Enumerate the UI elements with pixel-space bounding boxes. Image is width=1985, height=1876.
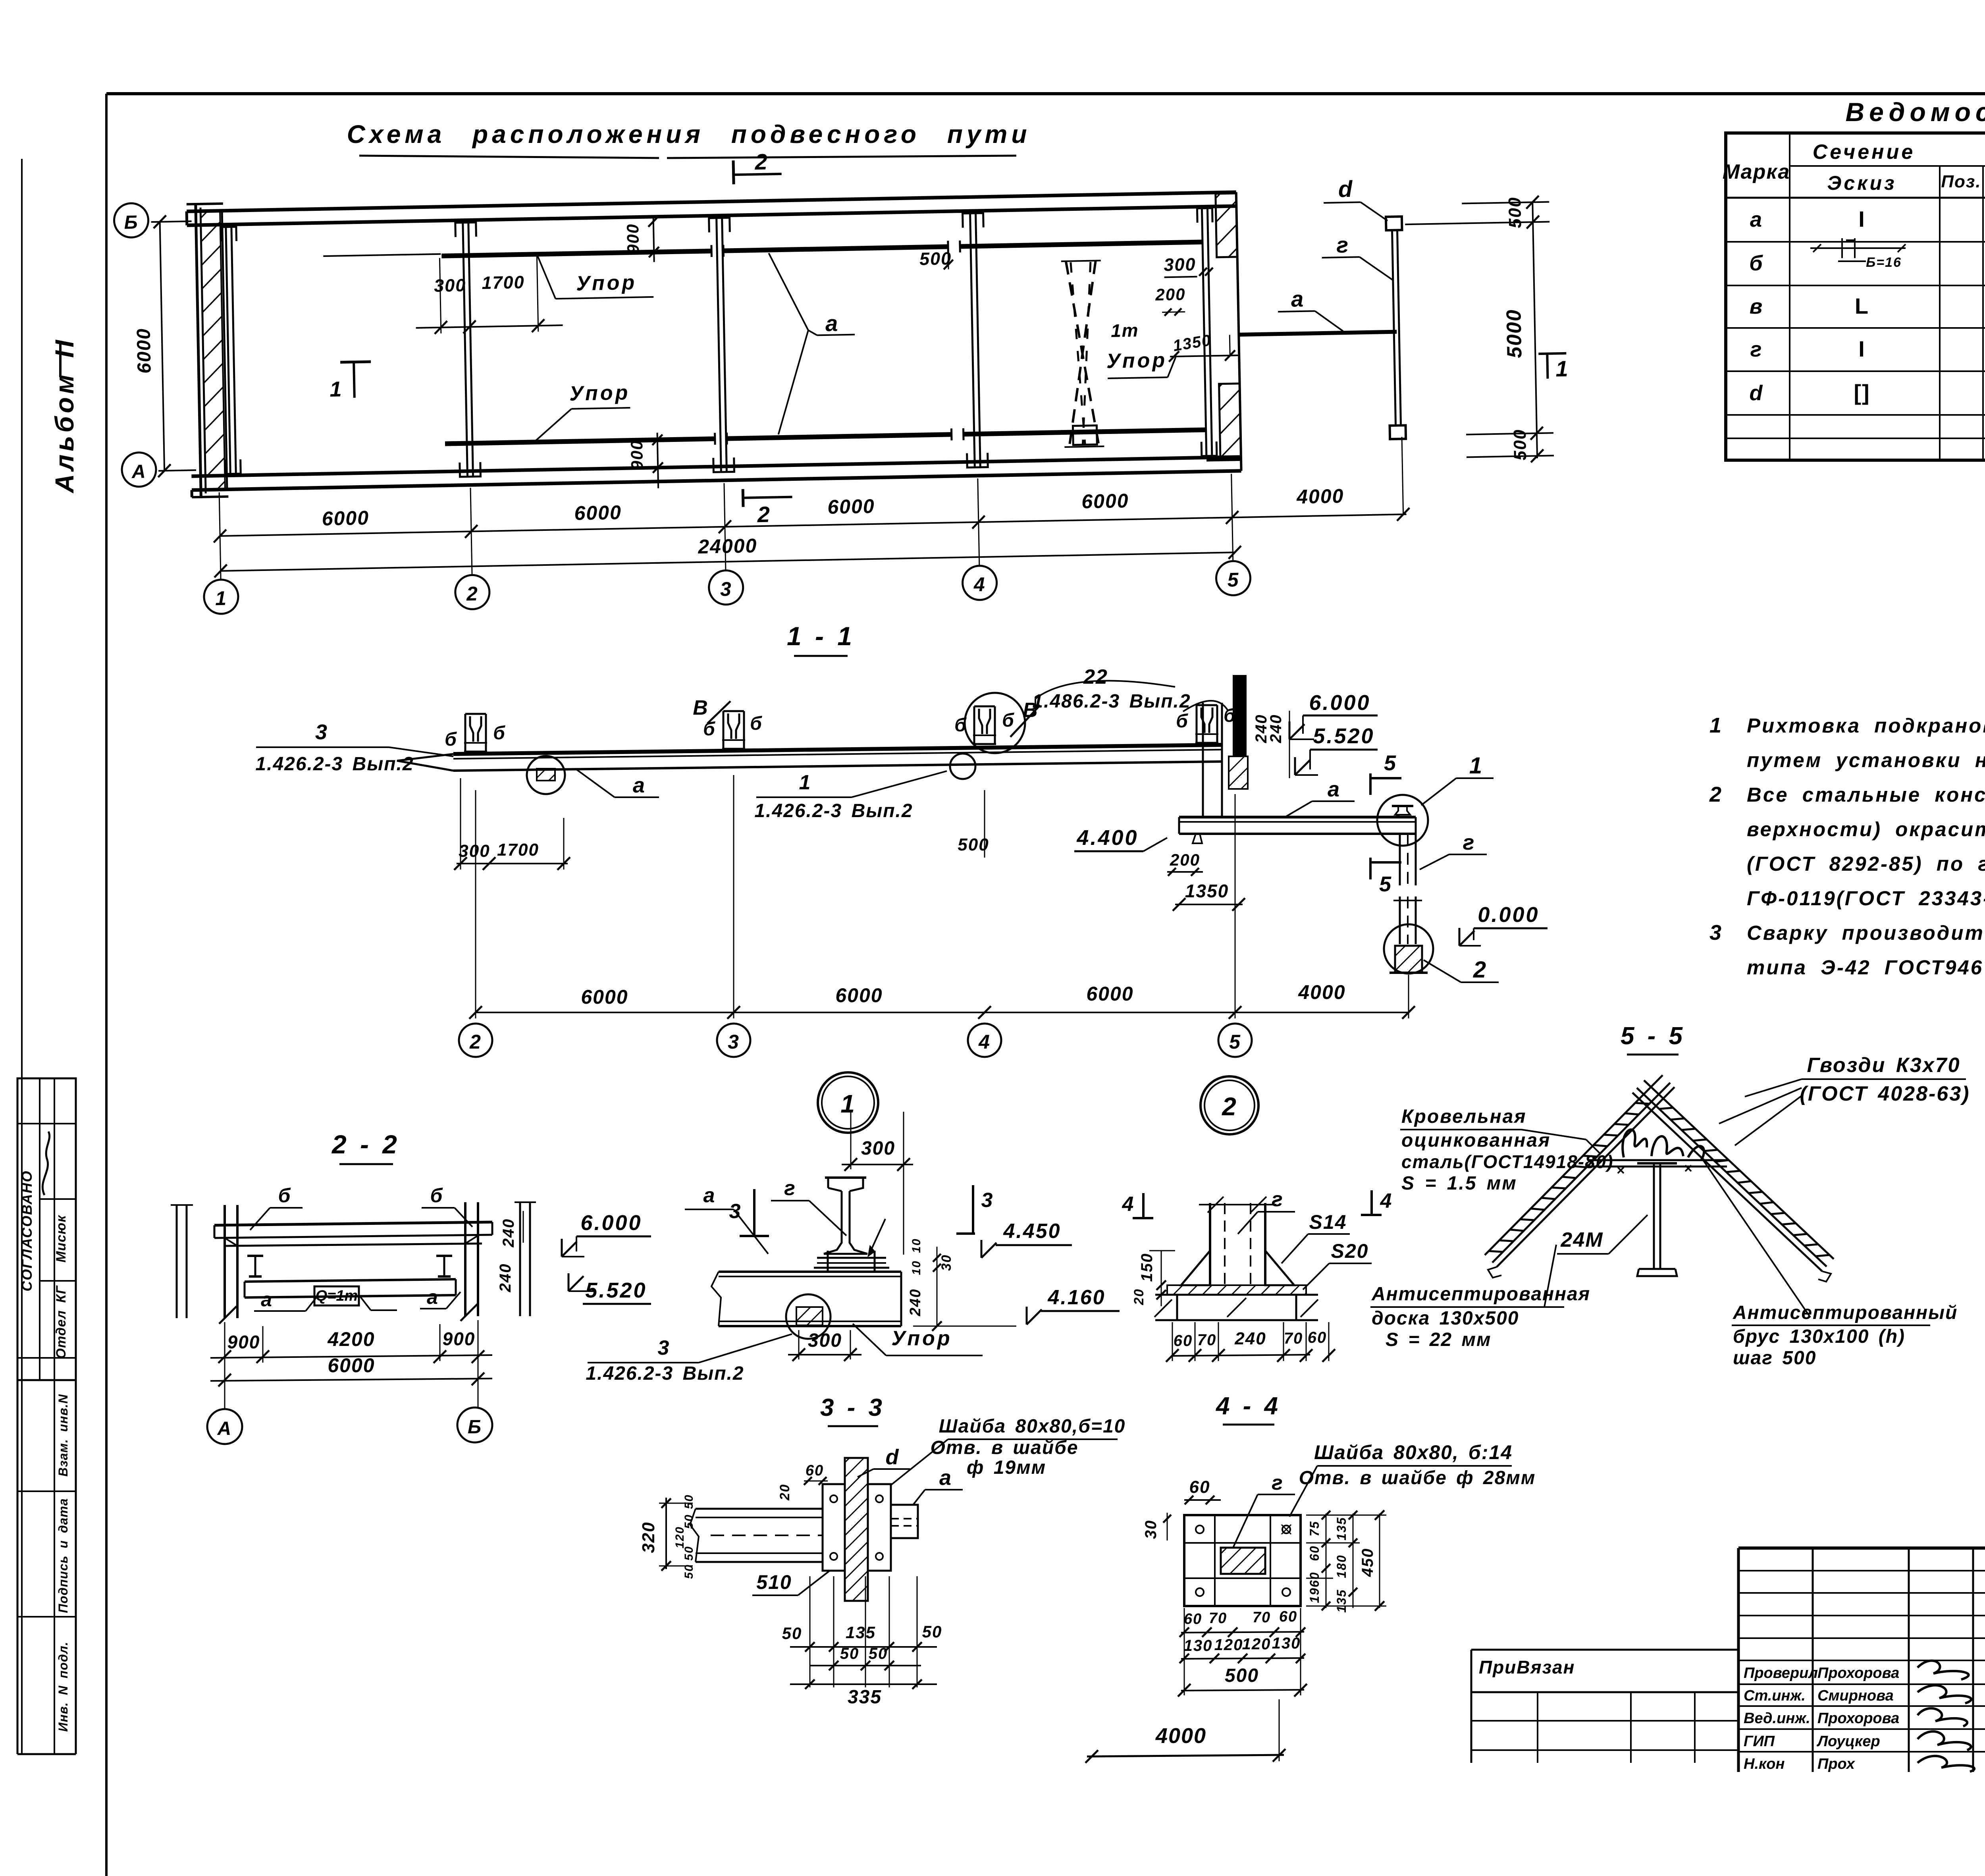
plan grid circles 1-5 bbox=[204, 579, 239, 614]
svg-text:5.520: 5.520 bbox=[1313, 724, 1374, 748]
plan lower track bbox=[445, 439, 715, 443]
section 1-1 grid circles bbox=[459, 1024, 492, 1057]
plan left rail b bbox=[226, 228, 230, 474]
svg-text:1: 1 bbox=[330, 377, 343, 401]
detail 1 dim 300 top bbox=[842, 1164, 913, 1165]
svg-text:ГИП: ГИП bbox=[1744, 1733, 1775, 1750]
svg-text:30: 30 bbox=[1142, 1520, 1160, 1539]
svg-text:Антисептированный: Антисептированный bbox=[1733, 1302, 1958, 1323]
detail 2 base plate bbox=[1167, 1285, 1306, 1295]
plan dim 300 1700 bbox=[439, 258, 441, 334]
svg-text:1700: 1700 bbox=[497, 840, 539, 860]
svg-text:б: б bbox=[430, 1184, 443, 1207]
plan top wall bbox=[187, 192, 1236, 211]
svg-text:5: 5 bbox=[1229, 1031, 1241, 1053]
svg-text:6000: 6000 bbox=[574, 501, 622, 524]
detail 1 dim 300 bottom bbox=[798, 1330, 800, 1359]
section mark 5 top bbox=[1369, 773, 1372, 795]
svg-text:10 10: 10 10 bbox=[910, 1238, 923, 1275]
svg-text:а: а bbox=[1328, 777, 1340, 801]
svg-text:2: 2 bbox=[1222, 1092, 1237, 1121]
svg-text:Кровельная: Кровельная bbox=[1401, 1106, 1527, 1127]
svg-text:240: 240 bbox=[1267, 714, 1285, 744]
svg-text:Подпись и дата: Подпись и дата bbox=[56, 1498, 70, 1613]
svg-text:1.426.2-3 Вып.2: 1.426.2-3 Вып.2 bbox=[586, 1363, 744, 1384]
svg-text:S = 1.5 мм: S = 1.5 мм bbox=[1401, 1173, 1517, 1194]
svg-text:5000: 5000 bbox=[1502, 309, 1526, 359]
svg-text:Смирнова: Смирнова bbox=[1817, 1687, 1894, 1704]
svg-text:Q=1т: Q=1т bbox=[316, 1288, 358, 1304]
svg-text:200: 200 bbox=[1155, 285, 1186, 304]
svg-text:70: 70 bbox=[1197, 1331, 1217, 1349]
svg-text:L: L bbox=[1855, 293, 1869, 318]
svg-text:б: б bbox=[750, 713, 763, 734]
4-4 right dims bbox=[1326, 1514, 1327, 1608]
svg-text:б: б bbox=[1176, 711, 1189, 732]
svg-text:Шайба 80х80, б:14: Шайба 80х80, б:14 bbox=[1314, 1441, 1513, 1463]
5-5 top wood scribbles bbox=[1623, 1130, 1647, 1157]
svg-text:4.400: 4.400 bbox=[1076, 826, 1138, 850]
svg-text:4: 4 bbox=[973, 573, 986, 596]
svg-text:60: 60 bbox=[1189, 1477, 1210, 1497]
5-5 doska band bbox=[1588, 1159, 1727, 1161]
svg-text:24000: 24000 bbox=[698, 534, 757, 558]
3-3 right stub a bbox=[891, 1505, 918, 1538]
svg-text:2: 2 bbox=[1473, 957, 1487, 983]
svg-text:[]: [] bbox=[1854, 380, 1870, 405]
plan bottom dim rows bbox=[220, 514, 1406, 536]
svg-text:240: 240 bbox=[500, 1219, 517, 1248]
svg-text:1: 1 bbox=[840, 1089, 856, 1118]
sheet frame bbox=[106, 92, 1985, 95]
svg-text:a: a bbox=[1750, 208, 1763, 231]
plan right wall hatched blocks bbox=[1216, 193, 1237, 257]
detail 1 second pointer bbox=[869, 1219, 885, 1255]
svg-text:3: 3 bbox=[728, 1031, 740, 1053]
2-2 left column bbox=[224, 1205, 226, 1318]
svg-text:180: 180 bbox=[1334, 1554, 1349, 1578]
plan upper track bbox=[441, 251, 711, 256]
svg-text:Поз.: Поз. bbox=[1941, 172, 1981, 191]
svg-text:900: 900 bbox=[623, 223, 642, 254]
plan section mark 1 left bbox=[354, 362, 355, 398]
svg-text:130: 130 bbox=[1272, 1635, 1301, 1652]
svg-text:6000: 6000 bbox=[1081, 490, 1129, 513]
svg-text:50: 50 bbox=[840, 1645, 860, 1662]
svg-text:300: 300 bbox=[861, 1138, 895, 1159]
svg-text:Взам. инв.N: Взам. инв.N bbox=[56, 1394, 70, 1477]
svg-text:Вед.инж.: Вед.инж. bbox=[1744, 1710, 1810, 1727]
svg-text:б: б bbox=[1749, 251, 1763, 275]
detail 1 rail bbox=[824, 1253, 867, 1255]
svg-text:г: г bbox=[1463, 831, 1475, 854]
4-4 bottom dims bbox=[1181, 1632, 1304, 1633]
svg-text:Упор: Упор bbox=[1106, 349, 1167, 373]
svg-text:г: г bbox=[1750, 337, 1763, 361]
svg-text:А: А bbox=[131, 461, 146, 482]
svg-text:б: б bbox=[1002, 710, 1015, 731]
detail circle 2 big bbox=[1201, 1076, 1258, 1134]
svg-text:6000: 6000 bbox=[133, 328, 155, 374]
svg-text:2: 2 bbox=[757, 502, 771, 527]
svg-text:1350: 1350 bbox=[1185, 881, 1229, 901]
svg-text:4000: 4000 bbox=[1155, 1724, 1206, 1748]
big circle detail V bbox=[965, 693, 1025, 753]
plan left vertical dim 6000 bbox=[160, 222, 164, 471]
2-2 vertical wavy column lines left bbox=[176, 1205, 178, 1318]
svg-text:510: 510 bbox=[756, 1571, 792, 1593]
3-3 arm beam bbox=[696, 1508, 823, 1510]
plan right rail bbox=[1202, 209, 1206, 456]
plan column grid x=2468 bbox=[970, 212, 975, 467]
signatures squiggles bbox=[1918, 1661, 1969, 1679]
plan section mark 2 bottom bbox=[742, 489, 745, 507]
small hook under bracket left bbox=[1193, 834, 1202, 843]
svg-text:3: 3 bbox=[720, 578, 732, 600]
svg-text:Марка: Марка bbox=[1723, 160, 1790, 183]
svg-text:S20: S20 bbox=[1331, 1240, 1369, 1262]
section 1-1 bracket beam bbox=[1179, 816, 1416, 819]
svg-text:Упор: Упор bbox=[569, 381, 630, 405]
5-5 roof feet bbox=[1488, 1267, 1501, 1278]
svg-text:135: 135 bbox=[1334, 1517, 1349, 1540]
svg-text:Упор: Упор bbox=[891, 1327, 952, 1350]
left stamp lower boxes bbox=[17, 1380, 19, 1754]
svg-text:Проверил: Проверил bbox=[1744, 1665, 1818, 1681]
2-2 cross beam a bbox=[245, 1279, 456, 1282]
svg-text:1960: 1960 bbox=[1307, 1571, 1322, 1603]
small circle splice mid bbox=[950, 754, 975, 779]
svg-text:4: 4 bbox=[978, 1031, 991, 1053]
svg-text:240: 240 bbox=[1234, 1329, 1266, 1348]
svg-text:d: d bbox=[1750, 381, 1763, 405]
svg-text:шаг 500: шаг 500 bbox=[1733, 1348, 1816, 1369]
svg-text:135: 135 bbox=[846, 1623, 876, 1642]
svg-text:50: 50 bbox=[682, 1494, 696, 1509]
svg-text:150: 150 bbox=[1138, 1253, 1156, 1282]
detail 2 bottom dims bbox=[1171, 1355, 1310, 1356]
svg-text:6.000: 6.000 bbox=[1309, 691, 1370, 715]
svg-text:300: 300 bbox=[808, 1330, 842, 1351]
svg-text:900: 900 bbox=[227, 1332, 260, 1352]
svg-text:500: 500 bbox=[1510, 429, 1530, 461]
svg-text:г: г bbox=[1272, 1471, 1284, 1494]
svg-text:а: а bbox=[703, 1184, 716, 1207]
plan dim 900 bottom bbox=[657, 433, 659, 488]
plan left wall hatched bbox=[196, 204, 201, 497]
svg-text:1: 1 bbox=[1469, 753, 1483, 779]
svg-text:СОГЛАСОВАНО: СОГЛАСОВАНО bbox=[19, 1170, 35, 1291]
detail 1 stop circle bbox=[786, 1294, 831, 1339]
svg-text:60: 60 bbox=[1307, 1545, 1322, 1561]
svg-text:3: 3 bbox=[729, 1200, 742, 1223]
svg-text:70: 70 bbox=[1209, 1610, 1227, 1627]
svg-text:3: 3 bbox=[315, 720, 328, 744]
svg-text:Б: Б bbox=[124, 212, 139, 233]
svg-text:500: 500 bbox=[1505, 197, 1525, 228]
svg-text:1: 1 bbox=[215, 587, 227, 610]
svg-text:4000: 4000 bbox=[1296, 485, 1344, 508]
svg-text:а: а bbox=[1291, 286, 1304, 312]
svg-text:Сечение: Сечение bbox=[1813, 141, 1916, 164]
plan X brace dashed band bbox=[1066, 260, 1099, 447]
plan section mark 1 right bbox=[1538, 353, 1566, 354]
svg-text:Шайба 80х80,б=10: Шайба 80х80,б=10 bbox=[939, 1416, 1126, 1437]
svg-text:20: 20 bbox=[1131, 1288, 1147, 1305]
svg-text:Отдел КГ: Отдел КГ bbox=[54, 1285, 69, 1359]
svg-text:4 - 4: 4 - 4 bbox=[1215, 1392, 1280, 1420]
section 1-1 right wall column bbox=[1233, 675, 1247, 756]
svg-text:900: 900 bbox=[443, 1328, 476, 1349]
privyazan table bbox=[1471, 1649, 1738, 1651]
svg-text:4000: 4000 bbox=[1298, 981, 1345, 1003]
4-4 plate bbox=[1184, 1515, 1301, 1606]
svg-text:А: А bbox=[217, 1418, 232, 1439]
svg-text:а: а bbox=[427, 1286, 439, 1308]
svg-text:4: 4 bbox=[1380, 1190, 1393, 1213]
svg-text:6000: 6000 bbox=[581, 986, 628, 1008]
svg-text:1.426.2-3 Вып.2: 1.426.2-3 Вып.2 bbox=[255, 754, 414, 775]
svg-text:4200: 4200 bbox=[327, 1328, 375, 1350]
svg-text:1.426.2-3 Вып.2: 1.426.2-3 Вып.2 bbox=[754, 800, 913, 821]
svg-text:I: I bbox=[1858, 206, 1866, 231]
svg-text:1 - 1: 1 - 1 bbox=[787, 621, 854, 651]
svg-text:5 - 5: 5 - 5 bbox=[1621, 1022, 1684, 1050]
svg-text:3: 3 bbox=[658, 1336, 670, 1359]
svg-text:200: 200 bbox=[1170, 850, 1200, 869]
detail 2 section marks 4 bbox=[1142, 1193, 1145, 1218]
svg-text:120: 120 bbox=[673, 1526, 686, 1548]
svg-text:5: 5 bbox=[1379, 872, 1392, 896]
svg-text:Прохорова: Прохорова bbox=[1817, 1665, 1899, 1681]
plan thin track extension left bbox=[323, 254, 441, 256]
svg-text:70: 70 bbox=[1284, 1330, 1303, 1347]
svg-text:60: 60 bbox=[806, 1462, 824, 1479]
svg-text:1.486.2-3 Вып.2: 1.486.2-3 Вып.2 bbox=[1032, 691, 1191, 712]
svg-text:1700: 1700 bbox=[482, 272, 525, 293]
svg-text:50: 50 bbox=[922, 1622, 942, 1641]
detail 1 section marks 3 bbox=[753, 1189, 755, 1235]
svg-text:типа Э-42 ГОСТ9467-75, hшва=6м: типа Э-42 ГОСТ9467-75, hшва=6мм. Тип шва… bbox=[1747, 956, 1985, 979]
2-2 grid circles bbox=[207, 1409, 242, 1444]
svg-text:335: 335 bbox=[848, 1687, 882, 1708]
svg-text:0.000: 0.000 bbox=[1478, 903, 1539, 927]
svg-text:d: d bbox=[1338, 176, 1353, 202]
svg-text:Антисептированная: Антисептированная bbox=[1371, 1284, 1590, 1305]
svg-text:4.160: 4.160 bbox=[1047, 1286, 1105, 1309]
svg-text:d: d bbox=[886, 1445, 900, 1469]
3-3 bottom dims bbox=[809, 1576, 811, 1687]
svg-text:60: 60 bbox=[1174, 1332, 1193, 1350]
svg-text:доска 130х500: доска 130х500 bbox=[1372, 1308, 1519, 1329]
right hanger rail vertical bbox=[1202, 703, 1204, 817]
plan bottom wall bbox=[191, 457, 1241, 476]
svg-text:22: 22 bbox=[1083, 665, 1108, 688]
5-5 roof slopes bbox=[1497, 1087, 1675, 1267]
svg-text:путем установки набора проклад: путем установки набора прокладок. bbox=[1747, 749, 1985, 771]
section 1-1 hangers bbox=[464, 714, 466, 752]
column g below bracket bbox=[1399, 834, 1401, 885]
svg-text:оцинкованная: оцинкованная bbox=[1401, 1130, 1551, 1151]
svg-text:50: 50 bbox=[869, 1645, 888, 1662]
svg-text:2: 2 bbox=[469, 1031, 482, 1053]
svg-text:50: 50 bbox=[782, 1624, 802, 1643]
plan dim 900 top bbox=[653, 217, 654, 262]
section 1-1 main beam bbox=[453, 745, 1223, 754]
svg-text:г: г bbox=[784, 1177, 796, 1200]
2-2 Q=1t box bbox=[314, 1286, 359, 1305]
svg-text:60: 60 bbox=[1184, 1611, 1202, 1627]
svg-text:ГФ-0119(ГОСТ 23343-78).: ГФ-0119(ГОСТ 23343-78). bbox=[1747, 887, 1985, 910]
svg-text:130: 130 bbox=[1184, 1637, 1213, 1654]
svg-text:Сварку производить по ГОСТ 526: Сварку производить по ГОСТ 5264-80 элект… bbox=[1747, 922, 1985, 944]
svg-text:3 - 3: 3 - 3 bbox=[820, 1394, 884, 1421]
svg-text:Гвозди К3х70: Гвозди К3х70 bbox=[1807, 1054, 1960, 1077]
svg-text:Все стальные конструкциии (кро: Все стальные конструкциии (кроме ездовой… bbox=[1747, 783, 1985, 806]
plan right vertical dim 500/5000/500 bbox=[1532, 202, 1537, 458]
svg-text:Мисюк: Мисюк bbox=[54, 1215, 69, 1262]
svg-text:6000: 6000 bbox=[322, 507, 369, 530]
svg-text:2: 2 bbox=[754, 149, 768, 175]
svg-text:900: 900 bbox=[627, 440, 646, 470]
svg-text:1: 1 bbox=[1709, 713, 1722, 737]
detail 2 column bbox=[1209, 1203, 1211, 1285]
svg-text:Альбом II: Альбом II bbox=[50, 337, 79, 494]
svg-text:Прохорова: Прохорова bbox=[1817, 1710, 1899, 1727]
plan section mark 2 top bbox=[733, 160, 734, 184]
svg-text:1: 1 bbox=[799, 771, 811, 794]
svg-text:70: 70 bbox=[1253, 1609, 1271, 1626]
svg-text:Б=16: Б=16 bbox=[1866, 255, 1902, 270]
plan view group bbox=[113, 135, 1573, 616]
svg-text:6000: 6000 bbox=[827, 495, 875, 518]
section mark 5 bottom bbox=[1369, 858, 1372, 879]
svg-text:Отв. в шайбе: Отв. в шайбе bbox=[930, 1437, 1078, 1458]
svg-text:б: б bbox=[445, 729, 457, 750]
svg-text:3: 3 bbox=[1709, 921, 1722, 945]
column g lower part bbox=[1399, 897, 1401, 944]
section 1-1 splice circle left bbox=[527, 756, 565, 794]
plan trolley box bbox=[1073, 426, 1097, 445]
svg-text:а: а bbox=[825, 310, 838, 336]
5-5 I beam bbox=[1637, 1162, 1677, 1165]
svg-text:6000: 6000 bbox=[328, 1354, 375, 1377]
svg-text:1т: 1т bbox=[1111, 320, 1139, 341]
svg-text:75: 75 bbox=[1307, 1521, 1322, 1537]
2-2 bottom dims bbox=[210, 1355, 492, 1358]
svg-text:S14: S14 bbox=[1309, 1211, 1347, 1233]
svg-text:60: 60 bbox=[1279, 1608, 1297, 1625]
foundation circle 2 bbox=[1384, 924, 1433, 974]
svg-text:450: 450 bbox=[1359, 1548, 1376, 1577]
2-2 rails I bbox=[247, 1255, 263, 1257]
detail 2 gussets bbox=[1181, 1251, 1210, 1285]
svg-text:Эскиз: Эскиз bbox=[1827, 172, 1896, 194]
svg-text:20: 20 bbox=[777, 1484, 792, 1501]
svg-text:В: В bbox=[693, 696, 709, 719]
svg-text:Прох: Прох bbox=[1817, 1756, 1856, 1772]
svg-text:6000: 6000 bbox=[1086, 983, 1133, 1005]
svg-text:5: 5 bbox=[1227, 569, 1239, 591]
svg-text:300: 300 bbox=[434, 275, 466, 296]
svg-text:240: 240 bbox=[497, 1263, 514, 1293]
svg-text:Ведомость элементов: Ведомость элементов bbox=[1845, 97, 1985, 127]
svg-text:Отв. в шайбе ф 28мм: Отв. в шайбе ф 28мм bbox=[1299, 1467, 1536, 1488]
svg-text:верхности) окрасить двумя слоя: верхности) окрасить двумя слоями масляно… bbox=[1747, 818, 1985, 841]
svg-text:а: а bbox=[633, 773, 646, 797]
svg-text:Рихтовка подкрановых путей по: Рихтовка подкрановых путей по вертикали … bbox=[1747, 714, 1985, 737]
svg-text:б: б bbox=[278, 1184, 291, 1207]
svg-text:3: 3 bbox=[981, 1189, 994, 1212]
detail circle 1 big bbox=[818, 1072, 878, 1133]
grid circle B bbox=[114, 203, 149, 238]
svg-text:(ГОСТ 4028-63): (ГОСТ 4028-63) bbox=[1800, 1082, 1970, 1105]
left stamp soglasovano bbox=[17, 1078, 76, 1380]
svg-text:1: 1 bbox=[1555, 356, 1569, 382]
svg-text:S = 22 мм: S = 22 мм bbox=[1386, 1329, 1491, 1350]
plan channel d top bbox=[1386, 216, 1402, 230]
rail detail circle 1 bbox=[1377, 795, 1428, 846]
svg-text:120: 120 bbox=[1242, 1635, 1271, 1653]
svg-text:Ст.инж.: Ст.инж. bbox=[1744, 1687, 1806, 1704]
svg-text:50: 50 bbox=[682, 1546, 696, 1560]
svg-text:2: 2 bbox=[1709, 783, 1722, 806]
svg-text:сталь(ГОСТ14918-80): сталь(ГОСТ14918-80) bbox=[1401, 1151, 1614, 1172]
svg-text:300: 300 bbox=[1164, 254, 1196, 275]
svg-text:Н.кон: Н.кон bbox=[1744, 1756, 1785, 1772]
svg-text:г: г bbox=[1272, 1188, 1284, 1211]
svg-text:а: а bbox=[261, 1288, 273, 1311]
svg-text:240: 240 bbox=[907, 1288, 924, 1316]
svg-text:135: 135 bbox=[1334, 1589, 1349, 1612]
plan column grid x=1829 bbox=[717, 217, 721, 472]
3-3 end plate with holes bbox=[823, 1484, 845, 1571]
svg-text:2: 2 bbox=[466, 582, 478, 605]
detail 1 rail plates bbox=[817, 1257, 886, 1259]
3-3 right plate bbox=[868, 1484, 891, 1571]
svg-text:50: 50 bbox=[682, 1564, 696, 1579]
svg-text:2 - 2: 2 - 2 bbox=[331, 1130, 399, 1159]
2-2 right column bbox=[464, 1202, 466, 1316]
plan column grid x=1190 bbox=[463, 222, 468, 477]
svg-text:Б: Б bbox=[468, 1417, 482, 1438]
detail 1 beam bbox=[719, 1271, 901, 1273]
section 1-1 bottom dims bbox=[476, 1012, 1409, 1013]
title block main bbox=[1738, 1546, 1985, 1550]
svg-text:Схема расположения подвесного: Схема расположения подвесного пути bbox=[347, 120, 1031, 148]
svg-text:4: 4 bbox=[1122, 1193, 1135, 1216]
svg-text:6.000: 6.000 bbox=[580, 1211, 642, 1235]
svg-text:Инв. N подл.: Инв. N подл. bbox=[56, 1641, 70, 1731]
2-2 top beam b bbox=[214, 1222, 492, 1225]
svg-text:120: 120 bbox=[1214, 1636, 1243, 1654]
svg-text:а: а bbox=[939, 1466, 952, 1490]
plan external rail and column g bbox=[1239, 332, 1397, 335]
svg-text:ф 19мм: ф 19мм bbox=[967, 1457, 1046, 1478]
svg-text:брус 130х100 (h): брус 130х100 (h) bbox=[1733, 1326, 1905, 1347]
svg-text:Лоуцкер: Лоуцкер bbox=[1816, 1733, 1880, 1750]
svg-text:300: 300 bbox=[459, 841, 490, 861]
svg-text:4.450: 4.450 bbox=[1003, 1220, 1061, 1243]
svg-text:I: I bbox=[1858, 336, 1866, 361]
svg-text:в: в bbox=[1750, 295, 1763, 318]
svg-text:(ГОСТ 8292-85) по грунтовке ГФ: (ГОСТ 8292-85) по грунтовке ГФ-021(ГОСТ2… bbox=[1747, 852, 1985, 875]
svg-text:Упор: Упор bbox=[576, 271, 637, 295]
svg-text:30: 30 bbox=[939, 1254, 954, 1271]
svg-text:г: г bbox=[1336, 232, 1349, 258]
3-3 vertical hatched plate d bbox=[845, 1458, 868, 1601]
svg-text:24М: 24М bbox=[1560, 1228, 1603, 1251]
